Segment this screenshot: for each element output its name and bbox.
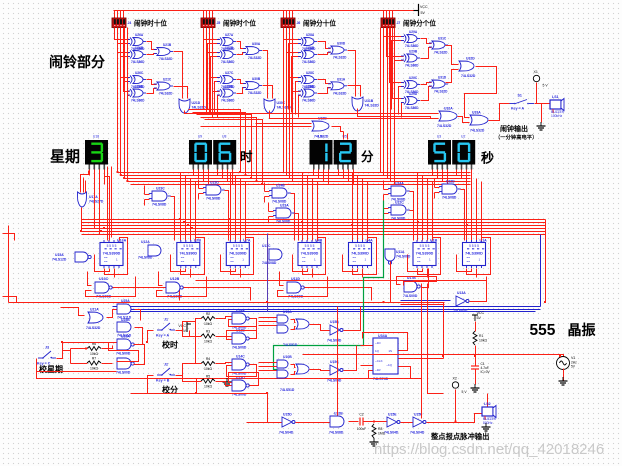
wire g2 bundle <box>212 28 214 118</box>
wire and out down <box>410 192 414 241</box>
wire U17A down <box>390 262 392 303</box>
wire OR to final <box>174 87 188 99</box>
svg-text:10kΩ: 10kΩ <box>204 385 212 389</box>
nand gate U11A 74LS00D <box>385 249 411 264</box>
wire counter out drop <box>362 269 364 278</box>
label 秒 <box>481 151 494 166</box>
svg-text:5V: 5V <box>477 316 482 320</box>
svg-text:~1Q: ~1Q <box>386 363 392 367</box>
wire band to counter <box>245 182 247 241</box>
wire and in1 up <box>383 200 385 209</box>
wire staircase bundle <box>201 118 257 182</box>
wire band to counter <box>427 179 429 241</box>
wire S1 to LS1 <box>535 103 551 105</box>
wire BCD bus <box>82 225 546 227</box>
wire nand out <box>305 288 372 301</box>
xor gate U27A 74LS86D <box>217 33 236 51</box>
ground C1 <box>471 384 480 392</box>
wire minute bundle <box>390 28 392 182</box>
svg-text:74LS08D: 74LS08D <box>262 261 277 265</box>
wire R2 to U14A <box>216 317 232 319</box>
svg-text:U14C: U14C <box>236 355 245 359</box>
wire vcc to R1 <box>475 322 477 332</box>
wire OR to final <box>263 86 273 99</box>
svg-text:U26D: U26D <box>135 85 144 89</box>
wire OR to final <box>263 51 268 99</box>
wire bottom long 1 <box>37 359 422 379</box>
wire DIP feed <box>114 11 116 19</box>
wire feedback to XOR <box>296 82 301 115</box>
and gate U25B 74LS11D <box>117 318 132 338</box>
svg-text:U21C: U21C <box>163 78 172 82</box>
wire and in1 up <box>268 203 270 212</box>
svg-text:整点报点脉冲输出: 整点报点脉冲输出 <box>430 432 489 441</box>
wire J1 left drop <box>148 331 154 343</box>
wire XOR to OR <box>421 83 432 85</box>
svg-text:U28B: U28B <box>306 46 315 50</box>
wire left edge vertical <box>8 226 10 303</box>
wire junction dots <box>61 171 561 423</box>
svg-text:==: == <box>181 260 185 264</box>
and gate U11C 74LS08D <box>262 244 282 265</box>
svg-text:74LS86D: 74LS86D <box>302 60 316 64</box>
wire LS2 top stub <box>487 394 489 408</box>
probe X2 <box>452 377 467 395</box>
wire DIP feed <box>212 11 214 19</box>
wire feedback to XOR <box>218 96 220 118</box>
svg-text:R4: R4 <box>206 357 210 361</box>
wire R6 right <box>102 346 113 349</box>
wire U31D to U32D <box>446 70 459 83</box>
svg-text:500Hz: 500Hz <box>483 421 493 425</box>
display U5 minute units digit 2 <box>334 135 357 170</box>
svg-text:闹钟分个位: 闹钟分个位 <box>403 19 436 28</box>
and-or gate U15A 74LS51D <box>277 310 309 347</box>
resistor R6 10kΩ <box>87 342 101 356</box>
wire display pin <box>232 170 234 185</box>
wire display bus <box>118 172 471 174</box>
svg-text:U8: U8 <box>222 135 226 139</box>
svg-text:U29C: U29C <box>409 76 418 80</box>
wire DIP to XOR <box>384 28 404 37</box>
wire ff to right <box>399 358 444 360</box>
svg-text:LS2: LS2 <box>484 402 491 406</box>
wire and in2 down <box>198 194 200 200</box>
svg-text:U32D: U32D <box>466 57 475 61</box>
wire u32b drop <box>347 134 349 140</box>
wire week side b <box>111 167 113 238</box>
display U2 second units digit 0 <box>452 135 475 170</box>
svg-text:74LS32D: 74LS32D <box>434 90 448 94</box>
wire feedback to XOR <box>402 103 404 118</box>
wire counter reset <box>293 255 308 272</box>
wire feedback to XOR <box>121 57 130 113</box>
wire counter reset <box>95 255 110 272</box>
svg-text:V1: V1 <box>571 356 575 360</box>
wire and in1 <box>435 187 440 189</box>
wire R5 to U13D <box>216 382 232 386</box>
svg-text:U23C: U23C <box>156 187 165 191</box>
wire display bus <box>125 178 471 180</box>
wire J2 to R5 <box>176 376 202 382</box>
svg-text:X2: X2 <box>453 377 457 381</box>
svg-text:R1: R1 <box>479 334 483 338</box>
wire U14A fb <box>227 319 257 340</box>
xor gate U26A 74LS86D <box>127 33 146 51</box>
wire g3 bundle <box>289 28 291 179</box>
svg-text:100kHz: 100kHz <box>551 114 563 118</box>
svg-text:U3: U3 <box>437 135 441 139</box>
wire display pin <box>193 170 195 176</box>
wire counter out drop <box>240 269 242 278</box>
and gate U22D 74LS08D <box>439 180 461 200</box>
wire BCD bus <box>82 222 546 224</box>
wire band to counter <box>432 182 434 241</box>
svg-text:==: == <box>104 260 108 264</box>
ground R8 <box>370 438 379 446</box>
wire counter loop <box>353 238 377 275</box>
wire horizontal y280 <box>196 280 487 282</box>
wire band to counter <box>230 173 232 241</box>
nand gate U14A 74LS00D <box>232 309 249 330</box>
wire U32B in2 <box>201 126 312 128</box>
wire counter loop <box>467 238 491 275</box>
xor gate U27C 74LS86D <box>217 71 236 89</box>
wire bus right drop <box>545 220 547 303</box>
nand gate U13B 74LS00D <box>232 329 249 350</box>
wire U10B inputs <box>259 370 277 372</box>
wire g2 bundle <box>206 28 208 113</box>
wire long to V1 <box>303 355 564 359</box>
wire and in2 <box>265 196 270 198</box>
svg-text:校星期: 校星期 <box>39 364 63 374</box>
svg-text:74LS08D: 74LS08D <box>152 203 167 207</box>
wire U10B b <box>291 372 296 375</box>
xor gate U26B 74LS86D <box>127 46 146 64</box>
inverter U15D 74LS04D <box>279 413 295 435</box>
wire U15F to LS2 <box>427 414 482 423</box>
wire DIP feed <box>389 11 391 19</box>
xor gate U29D 74LS86D <box>401 92 420 110</box>
label 星期 <box>50 148 80 166</box>
wire counter loop <box>231 238 254 275</box>
watermark <box>374 441 604 458</box>
and gate U23C 74LS08D <box>149 187 171 207</box>
or gate U21A 74LS32D <box>86 308 103 331</box>
wire and in1 <box>384 189 389 191</box>
svg-text:74LS00D: 74LS00D <box>403 294 418 298</box>
svg-text:U24B: U24B <box>276 184 285 188</box>
svg-text:74LS04D: 74LS04D <box>279 431 294 435</box>
wire counter out drop <box>312 269 314 278</box>
svg-text:74LS04D: 74LS04D <box>327 339 342 343</box>
svg-text:5V: 5V <box>571 365 576 369</box>
svg-text:U6: U6 <box>318 135 322 139</box>
svg-text:S1: S1 <box>518 94 522 98</box>
svg-text:U31C: U31C <box>438 37 447 41</box>
or gate U32D 74LS32D <box>459 57 476 79</box>
nand gate U13D 74LS00D <box>232 376 249 397</box>
wire J2 to R4 <box>176 364 202 376</box>
svg-text:U13A: U13A <box>457 291 466 295</box>
svg-text:闹钟时个位: 闹钟时个位 <box>223 19 256 28</box>
svg-text:100uF: 100uF <box>357 427 366 431</box>
wire XOR to OR <box>318 88 331 94</box>
svg-text:5 5 5 5: 5 5 5 5 <box>233 244 243 248</box>
buzzer LS2 500Hz <box>482 402 497 425</box>
wire nand out <box>184 288 251 301</box>
wire to U15E <box>375 421 387 423</box>
wire band to counter <box>312 179 314 241</box>
wire counter out drop <box>190 269 192 278</box>
svg-text:74LS00D: 74LS00D <box>232 346 247 350</box>
svg-text:U29D: U29D <box>409 92 418 96</box>
wire g2 bundle <box>209 28 211 115</box>
or gate U21B 74LS32D <box>154 43 173 61</box>
wire DIP feed <box>123 11 125 19</box>
wire minute bundle <box>383 28 385 176</box>
wire feedback to XOR <box>289 44 301 110</box>
wire ff clk in <box>361 365 373 367</box>
xor gate U26C 74LS86D <box>127 71 146 89</box>
wire DIP feed <box>392 11 394 19</box>
label 分 <box>361 149 374 164</box>
ground V1 <box>559 377 568 385</box>
svg-text:U28D: U28D <box>306 85 315 89</box>
inverter U15C 74LS04D <box>327 360 343 383</box>
svg-text:U25A: U25A <box>121 299 130 303</box>
and gate U22B 74LS08D <box>329 412 344 435</box>
or gate U31D 74LS32D <box>429 76 448 94</box>
svg-text:74LS08D: 74LS08D <box>391 217 406 221</box>
or gate U30A 74LS32D <box>243 42 262 60</box>
xor gate U28D 74LS86D <box>298 85 317 103</box>
switch S1 Key=A <box>510 94 535 111</box>
wire XOR to OR <box>421 87 432 101</box>
nor gate U17A 74LS27D <box>78 192 104 207</box>
wire staircase bundle <box>189 110 241 173</box>
wire to ground <box>541 104 543 123</box>
wire DIP to XOR <box>213 28 220 92</box>
svg-text:74LS12D: 74LS12D <box>52 258 67 262</box>
wire U15A inputs <box>259 317 277 319</box>
svg-text:1Q: 1Q <box>375 349 380 353</box>
svg-text:==: == <box>467 260 471 264</box>
svg-text:~1R: ~1R <box>375 368 381 372</box>
switch J2 Key=B <box>156 363 175 383</box>
svg-text:~CLK: ~CLK <box>375 359 383 363</box>
wire U17A out <box>82 208 102 232</box>
wire nand in2 <box>278 277 328 297</box>
svg-text:==: == <box>353 260 357 264</box>
wire DIP to XOR <box>121 28 130 78</box>
wire drop to 555 <box>443 303 445 359</box>
or gate U31C 74LS32D <box>429 37 448 55</box>
wire display pin <box>437 170 439 179</box>
svg-text:U28C: U28C <box>306 71 315 75</box>
svg-text:74LS86D: 74LS86D <box>405 64 419 68</box>
wire J3 up <box>57 343 113 359</box>
svg-text:VCC: VCC <box>477 311 485 315</box>
svg-text:J3: J3 <box>45 346 49 350</box>
svg-text:U14A: U14A <box>236 309 245 313</box>
svg-text:U26C: U26C <box>135 71 144 75</box>
wire hour bundle <box>120 28 122 176</box>
wire counter to nand <box>280 272 284 286</box>
svg-text:74LS27D: 74LS27D <box>89 200 104 204</box>
xor gate U27D 74LS86D <box>217 85 236 103</box>
wire display pin <box>198 170 200 179</box>
wire ff qbar loop <box>369 367 411 379</box>
wire staircase bundle <box>197 115 252 179</box>
wire R2R4 join <box>195 322 197 364</box>
svg-text:5 5 5 5: 5 5 5 5 <box>355 244 365 248</box>
svg-text:74LS51D: 74LS51D <box>280 388 295 392</box>
label 校时 <box>162 340 178 350</box>
wire U10B inputs <box>259 362 277 364</box>
svg-text:10kΩ: 10kΩ <box>204 367 212 371</box>
counter U4B 74LS390D <box>298 239 323 269</box>
svg-text:LS1: LS1 <box>552 95 559 99</box>
wire U15A inputs <box>259 325 277 327</box>
nand gate U20A 74LS00D <box>116 335 134 356</box>
xor gate U29B 74LS86D <box>401 50 420 68</box>
svg-text:J2: J2 <box>164 363 168 367</box>
svg-text:74LS32D: 74LS32D <box>437 124 452 128</box>
svg-text:74LS08D: 74LS08D <box>138 256 153 260</box>
wire and in1 up <box>383 181 385 190</box>
svg-text:555: 555 <box>530 322 556 339</box>
wire band to counter <box>417 173 419 241</box>
svg-text:74LS32D: 74LS32D <box>159 92 173 96</box>
wire DIP feed <box>283 11 285 19</box>
wire display pin <box>89 170 91 176</box>
DIP switch J5 闹钟时个位 <box>201 18 220 28</box>
svg-text:1S: 1S <box>388 349 392 353</box>
wire nand in2 <box>86 277 136 297</box>
wire green feedback <box>274 201 384 370</box>
svg-text:U31A: U31A <box>337 77 346 81</box>
svg-text:U12B: U12B <box>170 277 180 281</box>
counter U7B 74LS390D <box>177 239 202 269</box>
wire band to counter <box>466 173 468 241</box>
wire DIP to XOR <box>393 28 404 99</box>
counter U16A 74LS390D <box>100 239 127 269</box>
wire and in2 down <box>383 195 385 201</box>
svg-text:==: == <box>302 260 306 264</box>
wire U30C to U32A <box>270 111 439 119</box>
svg-text:U27B: U27B <box>225 46 234 50</box>
wire display pin <box>461 170 463 179</box>
svg-text:IC=0V: IC=0V <box>481 370 491 374</box>
wire horizontal y302 <box>9 302 445 304</box>
svg-text:U9: U9 <box>198 135 202 139</box>
wire counter loop <box>418 238 441 275</box>
wire XOR to OR <box>237 88 246 94</box>
wire blue right drop <box>540 235 542 307</box>
wire g3 bundle <box>283 28 285 173</box>
wire and out down <box>295 214 299 241</box>
wire display pin <box>432 170 434 176</box>
wire and in2 down <box>264 197 266 203</box>
wire band to counter <box>317 182 319 241</box>
wire nand out <box>113 288 180 301</box>
source V1 2Hz <box>557 356 578 370</box>
wire display pin <box>471 170 473 185</box>
or gate U30B 74LS32D <box>243 77 262 95</box>
wire counter loop <box>181 238 205 275</box>
svg-text:74LS04D: 74LS04D <box>453 309 468 313</box>
wire XOR to OR <box>318 80 331 84</box>
wire C1 down <box>475 370 477 385</box>
wire DIP feed <box>120 11 122 19</box>
wire counter out drop <box>476 269 478 278</box>
wire U32D to U33A <box>465 67 497 118</box>
ground below LS1 <box>537 122 546 130</box>
wire counter loop <box>105 238 128 275</box>
wire staircase bundle <box>193 113 246 176</box>
wire band to counter <box>185 176 187 241</box>
wire OR to final <box>348 86 361 97</box>
wire DIP feed <box>203 11 205 19</box>
and gate U22C 74LS08D <box>388 201 410 221</box>
svg-text:U25B: U25B <box>121 318 130 322</box>
svg-text:U4A: U4A <box>366 239 374 243</box>
label 整点报点脉冲输出 <box>430 432 489 441</box>
svg-text:VCC: VCC <box>420 5 428 9</box>
wire XOR to OR <box>318 42 331 49</box>
capacitor C2 100uF <box>357 413 366 432</box>
wire week pin4 <box>105 171 110 241</box>
svg-text:U26B: U26B <box>135 46 144 50</box>
and-or gate U10B 74LS51D <box>277 355 309 392</box>
wire and in1 <box>384 208 389 210</box>
svg-text:U26A: U26A <box>135 33 144 37</box>
wire counter reset <box>457 255 472 272</box>
wire feedback to XOR <box>299 96 301 118</box>
wire and in1 up <box>144 186 146 195</box>
wire U10B a <box>291 365 296 368</box>
or gate U33A 74LS32D <box>470 111 488 133</box>
nand gate U20B 74LS00D <box>116 358 134 375</box>
wire blue bus 3 <box>118 311 536 313</box>
resistor R4 10kΩ <box>201 357 215 371</box>
wire U13B fb <box>229 320 257 339</box>
wire to U15D <box>268 394 282 423</box>
wire feedback to XOR <box>118 44 130 110</box>
svg-text:74LS32D: 74LS32D <box>192 106 207 110</box>
wire band to counter <box>367 182 369 241</box>
wire band to counter <box>235 176 237 241</box>
resistor R7 10kΩ <box>87 357 101 371</box>
svg-text:10kΩ: 10kΩ <box>204 322 212 326</box>
wire DIP feed <box>286 11 288 19</box>
nand gate U13C 74LS00D <box>95 277 112 299</box>
svg-text:秒: 秒 <box>481 151 494 166</box>
label 闹钟时个位 <box>223 19 256 28</box>
wire display pin <box>447 170 449 185</box>
wire R7 left <box>71 363 88 365</box>
wire X1 stem <box>536 83 538 104</box>
wire u32b drop <box>343 132 345 140</box>
or gate U32B 74LS32D <box>312 117 329 139</box>
wire U32A to U33A <box>458 117 470 123</box>
resistor R2 10kΩ <box>201 312 215 326</box>
display U9 hour tens digit 0 <box>189 135 212 170</box>
wire display pin <box>442 170 444 182</box>
wire and in2 <box>435 192 440 194</box>
wire XOR to OR <box>421 48 432 59</box>
